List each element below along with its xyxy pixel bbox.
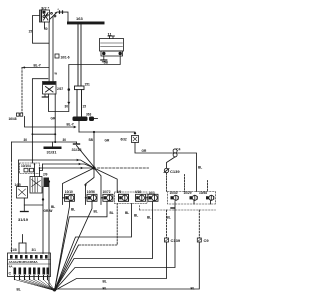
svg-text:10/29: 10/29 — [184, 191, 192, 195]
svg-text:BL: BL — [17, 288, 21, 292]
connector 16/1-6 — [55, 54, 59, 58]
dashed below C139 — [166, 173, 168, 192]
svg-text:C139: C139 — [170, 169, 180, 174]
svg-text:BL: BL — [51, 205, 55, 209]
stub 10/58 — [210, 200, 212, 204]
connector 363 — [73, 117, 88, 122]
power rail 30 line — [12, 141, 77, 143]
left rail down to connector block — [11, 142, 13, 161]
ground wires to connector block — [18, 243, 20, 254]
ground bar 31/31 — [52, 142, 54, 147]
star point D — [92, 166, 95, 169]
svg-text:30: 30 — [24, 138, 28, 142]
svg-text:6/32: 6/32 — [121, 138, 127, 142]
fan wires from block to star P — [15, 280, 55, 291]
svg-text:BL: BL — [191, 287, 195, 291]
svg-text:163: 163 — [76, 16, 83, 21]
battery left terminal ground — [103, 56, 105, 60]
fan line A to 14/5 — [19, 160, 95, 168]
svg-text:151: 151 — [85, 83, 91, 87]
block pin stubs — [15, 276, 48, 280]
svg-text:15: 15 — [29, 30, 33, 34]
wire 3/9 down dashed — [79, 204, 118, 246]
wire switch pin to relay — [48, 22, 50, 82]
svg-text:BL: BL — [125, 211, 129, 215]
14/5 ground — [23, 198, 25, 212]
wire to lamp switch 6/32 — [79, 131, 135, 133]
svg-text:BL-Y: BL-Y — [34, 64, 42, 68]
svg-text:31/31: 31/31 — [47, 150, 58, 155]
connector pair — [173, 149, 177, 153]
wire 10/56 down — [55, 201, 93, 290]
svg-text:GR-W: GR-W — [44, 209, 53, 213]
svg-text:BL: BL — [134, 214, 138, 218]
svg-text:BL: BL — [94, 210, 98, 214]
relay output wire down — [54, 94, 56, 143]
svg-text:C9: C9 — [204, 238, 210, 243]
arrow on wire — [67, 102, 70, 105]
bus wire to ground star — [55, 242, 200, 289]
connector block 3/1 — [8, 248, 55, 292]
wire arm contact down to relay — [52, 17, 54, 82]
relay loop wire — [49, 90, 69, 112]
wire 10/40 down — [55, 202, 176, 291]
2/9 ground wire — [24, 204, 43, 206]
svg-text:BL-Y: BL-Y — [67, 123, 75, 127]
lamp feeds from star — [63, 168, 95, 205]
svg-text:GR: GR — [105, 139, 110, 143]
svg-text:BL: BL — [110, 211, 114, 215]
wire 16/3 down — [55, 202, 153, 291]
switch 3/2 box — [40, 10, 50, 22]
svg-text:2/9: 2/9 — [43, 172, 48, 176]
fuse bar 163 — [67, 22, 105, 25]
wire switch top to fuse bar — [57, 12, 68, 21]
svg-text:31/19: 31/19 — [18, 217, 29, 222]
connector 363 output wire — [78, 121, 80, 132]
fuse output wires — [76, 90, 78, 117]
dashed wire down left — [21, 68, 23, 113]
connector C139 lower chain — [166, 210, 168, 238]
svg-text:SB: SB — [89, 138, 94, 142]
diagonal bar to star point — [77, 146, 95, 168]
svg-text:2/37: 2/37 — [57, 87, 63, 91]
component 10/104 dashed box — [20, 163, 40, 174]
svg-text:BL: BL — [198, 166, 202, 170]
ground point 31/18 — [76, 142, 78, 144]
connector C9 chain — [198, 210, 200, 238]
stub 10/29 — [193, 200, 195, 204]
pin wire into 2/9 — [34, 164, 36, 177]
connector C139 upper — [164, 168, 168, 172]
svg-text:GR: GR — [51, 117, 56, 121]
svg-text:3/2 *: 3/2 * — [41, 5, 50, 10]
svg-text:BL: BL — [103, 286, 107, 290]
wire 4/16 down — [55, 204, 132, 291]
lamp switch 6/32 — [134, 132, 136, 134]
svg-text:3/1: 3/1 — [32, 248, 37, 252]
2/9 right wire down — [48, 180, 50, 182]
dashed group box right — [168, 192, 216, 205]
svg-text:30: 30 — [63, 138, 67, 142]
relay ground pin — [44, 94, 46, 97]
svg-text:363: 363 — [86, 112, 92, 116]
svg-text:15: 15 — [83, 105, 87, 109]
svg-text:BL: BL — [103, 280, 107, 284]
svg-text:BL: BL — [167, 216, 171, 220]
wire to connector C139 upper — [167, 157, 176, 168]
svg-text:10/104: 10/104 — [21, 164, 31, 168]
svg-text:10/10: 10/10 — [65, 190, 73, 194]
battery right terminal wire — [69, 56, 120, 90]
svg-text:C139: C139 — [171, 238, 181, 243]
wire right to lower right — [177, 153, 196, 192]
junction node — [68, 88, 71, 91]
star point P — [53, 288, 56, 291]
svg-text:16/48: 16/48 — [9, 117, 17, 121]
wire from connector to arrow — [25, 117, 74, 128]
star up wire — [93, 132, 95, 167]
fan line B to 10/104 — [43, 164, 95, 168]
svg-text:SB: SB — [104, 61, 109, 65]
fuse 1/81 — [75, 86, 85, 90]
branch wire relay to 10/104 — [32, 79, 48, 163]
svg-text:31/8: 31/8 — [11, 248, 17, 252]
svg-text:3/9: 3/9 — [117, 190, 122, 194]
relay 2/37 — [43, 82, 57, 95]
svg-text:50: 50 — [44, 27, 48, 31]
svg-text:BL: BL — [71, 208, 75, 212]
svg-text:10/58: 10/58 — [199, 191, 207, 195]
connector 16/48 — [17, 113, 20, 116]
switch arm with arrow — [50, 13, 57, 20]
svg-text:C4: C4 — [176, 147, 180, 151]
svg-text:10/72: 10/72 — [103, 190, 111, 194]
relay pin stub — [48, 94, 50, 97]
svg-text:4/16: 4/16 — [135, 190, 141, 194]
svg-text:10/40: 10/40 — [170, 191, 178, 195]
middle row lamps — [63, 190, 216, 210]
wire switch left loop to relay — [33, 16, 50, 44]
wire 10/10 down — [55, 201, 70, 290]
svg-text:GR: GR — [142, 149, 147, 153]
dashed distribution right — [98, 167, 149, 169]
svg-text:30: 30 — [65, 105, 69, 109]
svg-text:4A3A2B1B5A6B8A: 4A3A2B1B5A6B8A — [9, 260, 39, 264]
wire bar to fuse 1/81 — [77, 24, 79, 86]
svg-text:10/56: 10/56 — [87, 190, 95, 194]
svg-text:BL: BL — [147, 216, 151, 220]
svg-text:C: C — [9, 272, 12, 276]
2/9 wire to connector block — [42, 187, 44, 254]
svg-text:w: w — [54, 72, 58, 76]
wire 6/32 to connector — [135, 143, 173, 154]
battery 11 — [100, 39, 124, 52]
wire 10/72 down — [55, 201, 108, 290]
wire BL-Y from junction left — [22, 67, 49, 69]
fan line C to 2/9 — [40, 167, 95, 169]
svg-text:16/1-6: 16/1-6 — [61, 56, 70, 60]
lamps 3/9 and 4/16 dashed box — [115, 192, 148, 204]
